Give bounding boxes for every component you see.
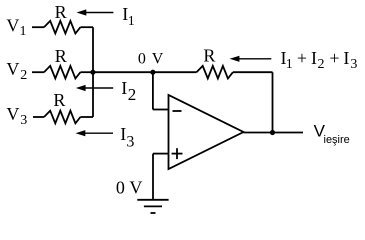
wire summing node horizontal — [93, 71, 197, 73]
svg-text:+: + — [297, 48, 307, 68]
junction dot bus-V2 — [90, 70, 95, 75]
wire V2 lead — [32, 71, 44, 73]
svg-text:V: V — [129, 177, 142, 197]
wire R1 to bus — [80, 26, 93, 28]
svg-text:0: 0 — [138, 51, 146, 68]
resistor R feedback — [197, 66, 233, 79]
svg-text:I: I — [120, 124, 126, 144]
wire noninverting input horizontal — [153, 153, 169, 155]
svg-text:I: I — [121, 78, 127, 98]
resistor R2 — [44, 66, 80, 79]
svg-text:R: R — [203, 46, 215, 66]
wire feedback resistor to corner — [233, 71, 273, 73]
label Viesire — [314, 122, 350, 146]
op-amp U1 — [169, 95, 244, 169]
op-amp plus sign — [172, 148, 183, 159]
svg-text:2: 2 — [318, 57, 325, 72]
ground — [137, 200, 168, 213]
wire feedback vertical — [272, 72, 274, 132]
label V3 — [6, 104, 27, 128]
svg-text:3: 3 — [350, 57, 357, 72]
wire inverting input horizontal — [153, 109, 169, 111]
label I1 — [122, 4, 135, 29]
label I3 — [120, 124, 134, 150]
wire inverting input vertical — [152, 72, 154, 109]
svg-text:R: R — [55, 2, 67, 22]
svg-text:I: I — [343, 48, 349, 68]
svg-text:V: V — [152, 51, 164, 68]
arrow I1 — [77, 9, 114, 15]
arrow I2 — [76, 85, 113, 91]
wire R2 to bus — [80, 71, 93, 73]
resistor R1 — [44, 21, 80, 34]
svg-text:ieşire: ieşire — [324, 134, 350, 146]
wire noninverting to ground vertical — [152, 154, 154, 200]
svg-text:R: R — [55, 46, 67, 66]
svg-text:1: 1 — [20, 24, 27, 39]
svg-text:3: 3 — [20, 113, 27, 128]
label V1 — [6, 15, 26, 39]
arrow I3 — [76, 130, 114, 136]
svg-text:1: 1 — [286, 57, 293, 72]
resistor R3 — [44, 111, 80, 124]
node 0V dot — [150, 70, 155, 75]
label V2 — [6, 59, 27, 83]
op-amp minus sign — [173, 110, 182, 112]
wire output — [244, 132, 304, 134]
junction dot output — [270, 130, 275, 135]
arrow I1+I2+I3 — [230, 56, 272, 62]
label 0V bottom — [116, 177, 142, 197]
svg-text:I: I — [311, 48, 317, 68]
svg-text:V: V — [6, 59, 19, 79]
svg-text:3: 3 — [126, 133, 134, 150]
svg-text:2: 2 — [20, 68, 27, 83]
svg-text:V: V — [6, 104, 19, 124]
wire V1 lead — [32, 26, 44, 28]
label I1+I2+I3 — [281, 48, 358, 72]
wire V3 lead — [33, 116, 44, 118]
wire R3 to bus — [80, 116, 93, 118]
wire input bus vertical — [92, 27, 94, 117]
label I2 — [121, 78, 136, 104]
svg-text:0: 0 — [116, 177, 125, 197]
svg-text:+: + — [329, 48, 339, 68]
svg-text:V: V — [6, 15, 19, 35]
svg-text:1: 1 — [128, 14, 135, 29]
label 0V top — [138, 51, 164, 68]
svg-text:R: R — [53, 90, 65, 110]
svg-text:2: 2 — [128, 85, 137, 104]
